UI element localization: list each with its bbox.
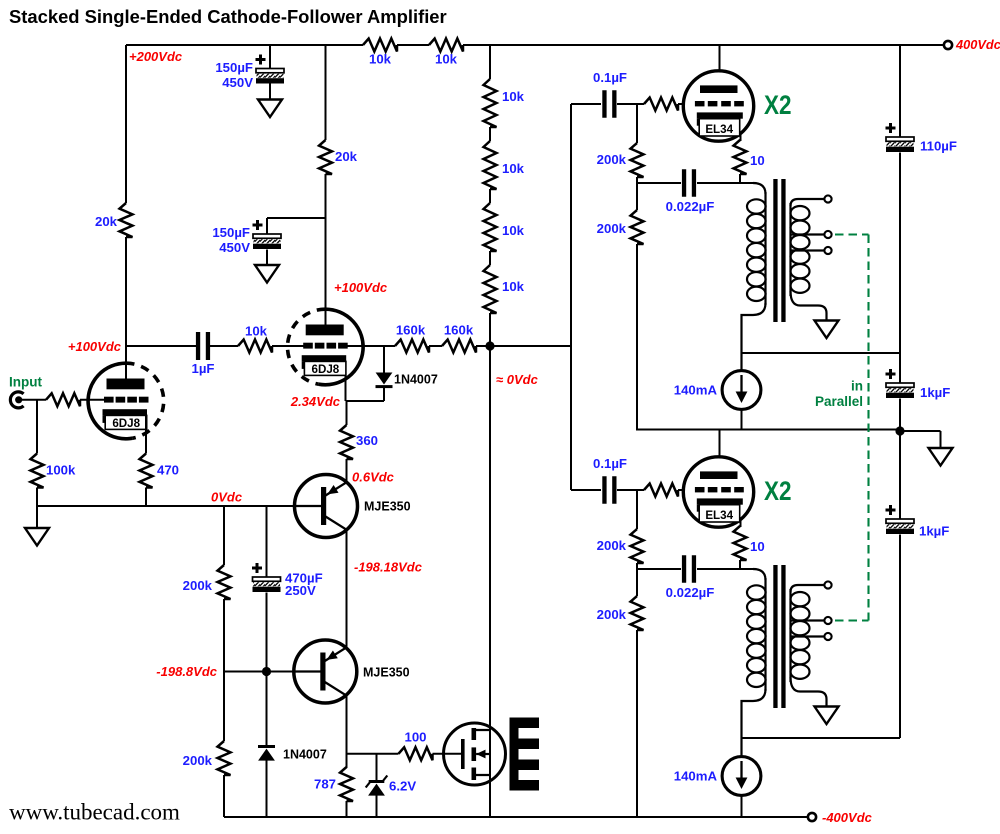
- svg-text:MJE350: MJE350: [364, 500, 411, 514]
- svg-text:150µF: 150µF: [212, 225, 250, 240]
- svg-text:160k: 160k: [444, 323, 474, 338]
- svg-text:250V: 250V: [285, 583, 316, 598]
- svg-text:1kµF: 1kµF: [919, 524, 949, 539]
- svg-text:EL34: EL34: [705, 123, 733, 136]
- svg-text:450V: 450V: [222, 75, 253, 90]
- svg-text:X2: X2: [764, 90, 792, 120]
- svg-text:in: in: [851, 379, 863, 394]
- svg-text:2.34Vdc: 2.34Vdc: [290, 394, 341, 409]
- svg-text:200k: 200k: [597, 538, 627, 553]
- svg-text:1N4007: 1N4007: [394, 373, 438, 387]
- svg-text:0.1µF: 0.1µF: [593, 456, 627, 471]
- svg-text:160k: 160k: [396, 323, 426, 338]
- svg-text:20k: 20k: [95, 214, 118, 229]
- svg-text:100k: 100k: [46, 463, 76, 478]
- svg-text:200k: 200k: [597, 607, 627, 622]
- svg-text:140mA: 140mA: [674, 383, 718, 398]
- svg-text:470: 470: [157, 463, 179, 478]
- svg-text:6.2V: 6.2V: [389, 779, 416, 794]
- svg-text:360: 360: [356, 433, 378, 448]
- svg-text:150µF: 150µF: [215, 60, 253, 75]
- svg-text:10k: 10k: [369, 52, 392, 67]
- svg-text:10k: 10k: [245, 324, 268, 339]
- svg-text:+200Vdc: +200Vdc: [129, 49, 183, 64]
- svg-text:10k: 10k: [502, 223, 525, 238]
- svg-text:6DJ8: 6DJ8: [312, 363, 340, 376]
- svg-text:10k: 10k: [502, 89, 525, 104]
- svg-text:200k: 200k: [183, 753, 213, 768]
- svg-text:0Vdc: 0Vdc: [211, 490, 243, 505]
- svg-text:10: 10: [750, 153, 765, 168]
- svg-text:450V: 450V: [219, 240, 250, 255]
- svg-text:+100Vdc: +100Vdc: [68, 339, 122, 354]
- svg-text:6DJ8: 6DJ8: [112, 417, 140, 430]
- svg-text:200k: 200k: [183, 578, 213, 593]
- svg-text:1kµF: 1kµF: [920, 385, 950, 400]
- svg-text:20k: 20k: [335, 149, 358, 164]
- svg-text:140mA: 140mA: [674, 769, 718, 784]
- svg-text:0.1µF: 0.1µF: [593, 70, 627, 85]
- svg-text:www.tubecad.com: www.tubecad.com: [9, 800, 180, 825]
- svg-text:400Vdc: 400Vdc: [955, 37, 1000, 52]
- svg-text:100: 100: [404, 730, 426, 745]
- svg-text:MJE350: MJE350: [363, 666, 410, 680]
- svg-text:1µF: 1µF: [192, 361, 215, 376]
- svg-text:Parallel: Parallel: [815, 394, 863, 409]
- svg-text:0.6Vdc: 0.6Vdc: [352, 470, 395, 485]
- svg-text:0.022µF: 0.022µF: [666, 199, 715, 214]
- svg-text:200k: 200k: [597, 152, 627, 167]
- svg-text:-198.8Vdc: -198.8Vdc: [156, 664, 217, 679]
- svg-text:10k: 10k: [502, 279, 525, 294]
- svg-text:Input: Input: [9, 375, 42, 390]
- svg-text:X2: X2: [764, 476, 792, 506]
- svg-text:200k: 200k: [597, 221, 627, 236]
- svg-text:EL34: EL34: [705, 509, 733, 522]
- svg-text:Stacked Single-Ended Cathode-F: Stacked Single-Ended Cathode-Follower Am…: [9, 6, 447, 27]
- svg-text:≈ 0Vdc: ≈ 0Vdc: [496, 372, 539, 387]
- svg-text:10k: 10k: [502, 161, 525, 176]
- svg-text:-198.18Vdc: -198.18Vdc: [354, 560, 423, 575]
- svg-text:+100Vdc: +100Vdc: [334, 280, 388, 295]
- svg-text:0.022µF: 0.022µF: [666, 585, 715, 600]
- svg-text:-400Vdc: -400Vdc: [822, 810, 873, 825]
- svg-text:1N4007: 1N4007: [283, 748, 327, 762]
- svg-text:10k: 10k: [435, 52, 458, 67]
- svg-text:110µF: 110µF: [920, 139, 957, 154]
- svg-text:10: 10: [750, 539, 765, 554]
- svg-text:787: 787: [314, 777, 336, 792]
